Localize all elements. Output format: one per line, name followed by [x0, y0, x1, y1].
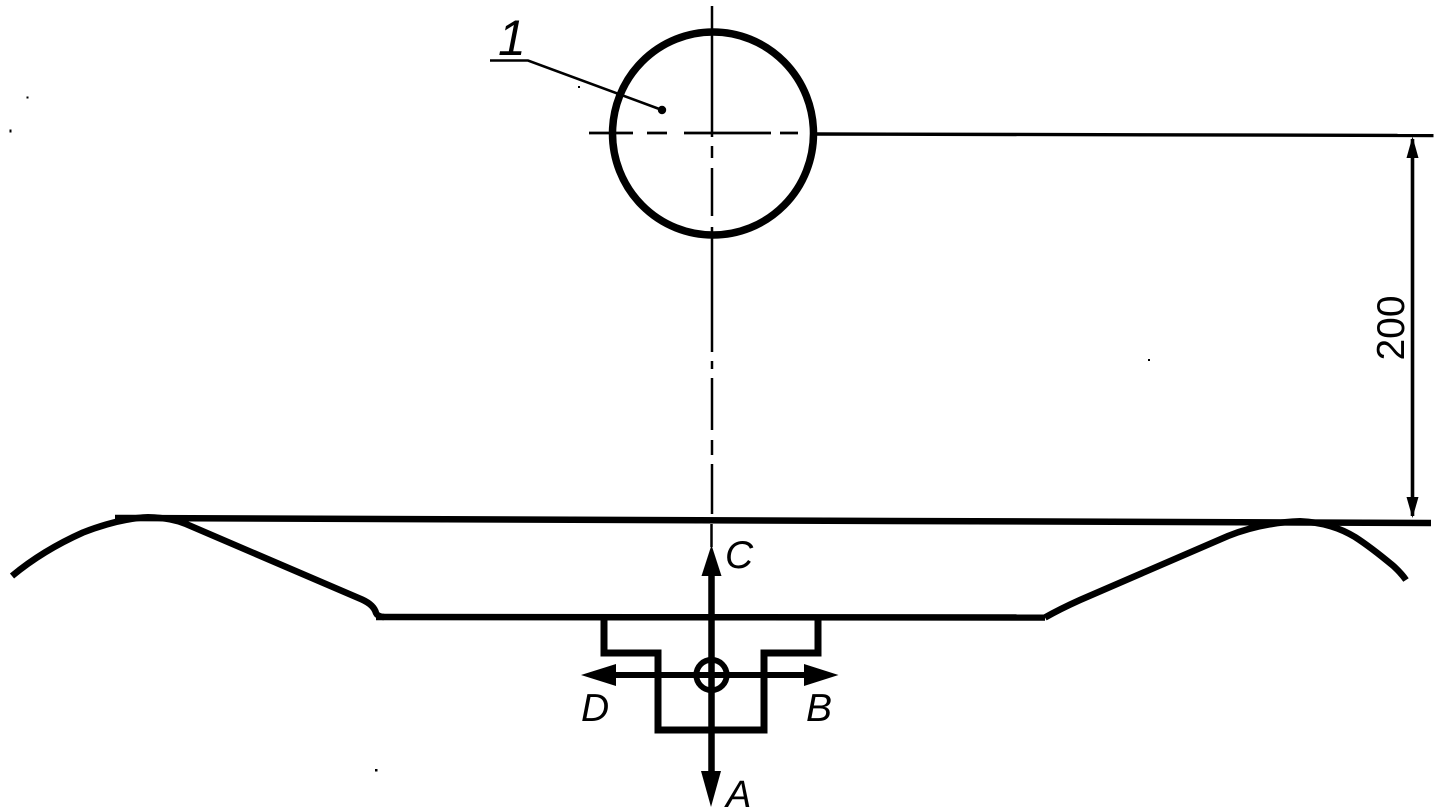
- svg-text:1: 1: [498, 10, 526, 66]
- node pivot circle: [696, 660, 726, 690]
- node leader dot: [658, 106, 666, 114]
- wire horizontal centerline: [589, 133, 1434, 136]
- wire vertical centerline: [710, 6, 713, 547]
- svg-text:D: D: [581, 687, 609, 730]
- wire right hump curve: [1045, 521, 1406, 617]
- arrow A head: [701, 771, 721, 807]
- arrow D head: [581, 664, 616, 686]
- wire arrow horizontal shaft: [600, 672, 820, 678]
- svg-text:C: C: [725, 534, 754, 577]
- wire arrow vertical shaft: [708, 572, 715, 775]
- bracket mount: [604, 617, 818, 730]
- arrow dimension top: [1407, 137, 1419, 159]
- wire dish bottom line: [376, 614, 1045, 621]
- arrow C head: [702, 545, 722, 576]
- wire dish top line: [115, 518, 1431, 523]
- wire left hump curve: [12, 517, 384, 617]
- wire dimension line 200: [1411, 139, 1415, 516]
- svg-text:200: 200: [1370, 295, 1413, 360]
- speck dots: [10, 86, 1151, 772]
- svg-text:A: A: [724, 774, 751, 812]
- arrow B head: [804, 664, 839, 686]
- circle feed 1: [613, 32, 814, 235]
- arrow dimension bottom: [1407, 497, 1419, 518]
- wire leader from label 1: [490, 61, 662, 111]
- svg-text:B: B: [806, 687, 832, 730]
